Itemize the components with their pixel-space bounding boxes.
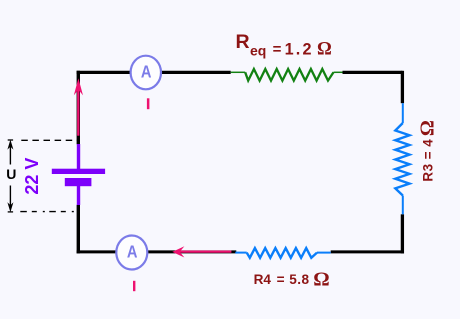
svg-text:1.2: 1.2 <box>285 40 314 58</box>
svg-text:R3 = 4: R3 = 4 <box>421 139 436 182</box>
svg-text:A: A <box>141 61 152 81</box>
svg-text:=: = <box>273 41 282 58</box>
svg-text:5.8: 5.8 <box>289 272 309 287</box>
svg-text:R4: R4 <box>254 272 272 287</box>
svg-text:Ω: Ω <box>416 120 438 136</box>
svg-text:eq: eq <box>250 43 266 59</box>
svg-text:U: U <box>6 166 16 182</box>
svg-text:=: = <box>277 272 285 287</box>
svg-text:Ω: Ω <box>317 40 332 60</box>
svg-text:22 V: 22 V <box>22 158 42 195</box>
svg-text:A: A <box>127 242 138 262</box>
svg-text:R: R <box>236 31 250 53</box>
svg-text:Ω: Ω <box>313 268 329 290</box>
